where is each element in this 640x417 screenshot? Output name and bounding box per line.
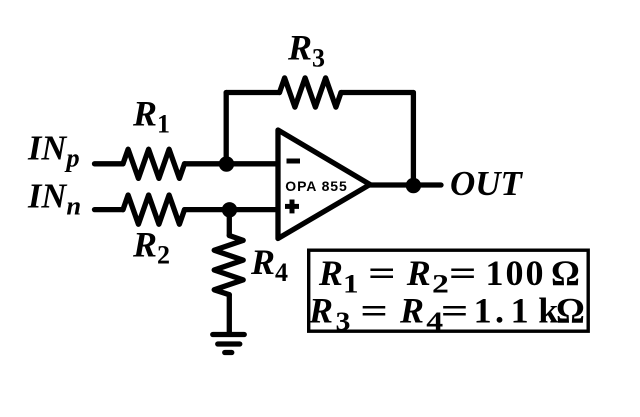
resistor R2 xyxy=(123,195,185,224)
svg-text:=: = xyxy=(360,291,388,331)
svg-text:Ω: Ω xyxy=(556,291,585,331)
wire feedback top right xyxy=(341,90,413,95)
svg-text:R: R xyxy=(308,291,333,331)
op-amp U1 OPA855 triangle xyxy=(278,130,370,239)
value label line 2: R3 = R4 = 1.1 kilo-ohm xyxy=(308,291,585,337)
svg-text:INp: INp xyxy=(27,129,80,172)
svg-text:.: . xyxy=(495,291,504,331)
resistor R4 xyxy=(214,236,243,295)
wire R2 to op-amp non-inverting input xyxy=(185,207,279,212)
wire node C to R4 xyxy=(227,210,232,236)
resistor R3 xyxy=(280,78,342,107)
svg-text:R: R xyxy=(399,291,424,331)
svg-text:=: = xyxy=(449,254,477,294)
svg-text:100: 100 xyxy=(486,253,546,293)
wire feedback top left xyxy=(226,90,279,95)
svg-text:R: R xyxy=(318,253,343,293)
wire feedback left vertical xyxy=(224,93,229,164)
svg-text:=: = xyxy=(368,254,396,294)
svg-text:R4: R4 xyxy=(250,242,288,287)
svg-text:R: R xyxy=(406,253,431,293)
ground symbol xyxy=(213,335,245,353)
resistor R1 xyxy=(123,149,185,178)
wire IN_p input lead xyxy=(95,161,124,166)
svg-text:1: 1 xyxy=(511,291,529,331)
svg-text:3: 3 xyxy=(336,308,351,337)
svg-text:1: 1 xyxy=(343,270,359,299)
svg-text:R1: R1 xyxy=(132,93,170,138)
svg-text:=: = xyxy=(441,291,469,331)
wire R1 to op-amp inverting input xyxy=(185,161,279,166)
svg-text:OUT: OUT xyxy=(450,164,524,203)
wire feedback right vertical to output xyxy=(411,93,416,186)
wire output lead xyxy=(368,182,441,187)
value label line 1: R1 = R2 = 100 ohm xyxy=(318,253,580,299)
wire IN_n input lead xyxy=(95,207,124,212)
svg-text:1: 1 xyxy=(474,291,492,331)
op-amp non-inverting pin marker xyxy=(285,200,299,214)
node B output junction xyxy=(406,178,421,193)
svg-text:Ω: Ω xyxy=(551,253,580,293)
svg-text:INn: INn xyxy=(27,178,81,221)
svg-text:R2: R2 xyxy=(132,225,170,270)
svg-text:R3: R3 xyxy=(287,28,325,73)
node A inverting input junction xyxy=(219,156,234,171)
op-amp inverting pin marker xyxy=(287,159,301,164)
node C non-inverting input junction xyxy=(222,202,237,217)
svg-text:OPA 855: OPA 855 xyxy=(285,178,347,194)
wire R4 to ground xyxy=(227,295,232,332)
value table box xyxy=(309,250,589,331)
